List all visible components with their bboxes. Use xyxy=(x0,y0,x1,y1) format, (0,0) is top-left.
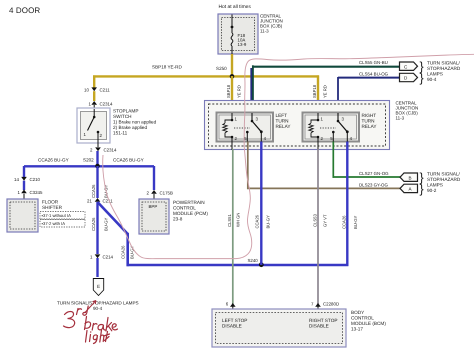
node S250 xyxy=(216,66,234,79)
body control module (BCM) xyxy=(212,309,346,347)
wire blue bus CCA26 BU-GY horizontal xyxy=(24,158,154,167)
svg-text:C211: C211 xyxy=(100,88,111,93)
svg-text:CCA26: CCA26 xyxy=(342,215,347,229)
svg-text:TURN SIGNAL/: TURN SIGNAL/ xyxy=(427,172,461,177)
svg-text:S250: S250 xyxy=(216,66,227,71)
svg-text:B: B xyxy=(409,175,412,180)
svg-text:21: 21 xyxy=(87,199,92,204)
svg-text:STOP/HAZARD: STOP/HAZARD xyxy=(427,66,461,71)
wire blue CLS54 BU-OG to connector D xyxy=(338,71,401,113)
label LEFT TURN RELAY xyxy=(276,113,292,129)
label TURN SIGNAL/STOP/HAZARD LAMPS 90-4 (top right) xyxy=(427,61,461,83)
connector C2280D pin 7 into BCM xyxy=(311,302,339,307)
wire gray CLS53 GY-VT right relay pin2 to BCM xyxy=(313,149,328,304)
wire blue parallel to left relay pin 3 xyxy=(250,68,252,113)
svg-text:MODULE (PCM): MODULE (PCM) xyxy=(173,211,208,216)
right relay pin 5 xyxy=(330,131,334,142)
svg-text:FLOOR: FLOOR xyxy=(42,200,59,205)
svg-text:RELAY: RELAY xyxy=(276,124,292,129)
wire blue C214 to connector E xyxy=(96,258,98,277)
svg-text:11-3: 11-3 xyxy=(260,29,269,34)
wire green CLS27 GN-OG right relay pin5 to connector B xyxy=(333,142,401,178)
fuse F18 10A 13-9 xyxy=(231,15,247,55)
connector C211 pin 10 xyxy=(84,87,110,92)
svg-text:SBP18: SBP18 xyxy=(312,84,317,98)
central junction box (fuse box) xyxy=(218,14,258,54)
connector C214 pin 1 xyxy=(90,254,114,259)
wire blue segment C210 to C3245 xyxy=(23,181,25,190)
svg-text:BPP: BPP xyxy=(149,204,158,209)
svg-text:90-2: 90-2 xyxy=(427,188,437,193)
svg-text:CONTROL: CONTROL xyxy=(351,316,374,321)
svg-text:CLS55 GN-BU: CLS55 GN-BU xyxy=(359,60,388,65)
left relay pin2 lead through box xyxy=(231,138,233,150)
right relay coil xyxy=(309,120,324,141)
right relay pin 1 lead xyxy=(317,113,324,122)
wire into floor shifter xyxy=(23,194,25,199)
right relay pin 3 and switch arm xyxy=(337,113,348,132)
label TURN SIGNAL/STOP/HAZARD LAMPS 90-2 xyxy=(427,172,461,194)
svg-text:RELAY: RELAY xyxy=(362,124,378,129)
label POWERTRAIN CONTROL MODULE (PCM) 23-8 xyxy=(173,200,208,222)
svg-text:23-8: 23-8 xyxy=(173,217,183,222)
svg-text:C210: C210 xyxy=(30,177,41,182)
right relay coil-arm dashed link xyxy=(320,127,336,129)
wire blue C2314 to S202 xyxy=(96,151,98,166)
connector C3245 pin 1 xyxy=(18,190,43,196)
connector A xyxy=(400,182,424,196)
svg-text:GY VT: GY VT xyxy=(323,214,328,227)
svg-text:CCA26: CCA26 xyxy=(255,214,260,228)
powertrain control module (PCM) xyxy=(139,199,169,234)
wire green CLS55 GN-BU to connector C xyxy=(252,60,401,113)
svg-text:TURN: TURN xyxy=(362,119,375,124)
svg-text:▪37-1 without IA: ▪37-1 without IA xyxy=(42,213,72,218)
svg-text:CLS54 BU-OG: CLS54 BU-OG xyxy=(359,71,389,76)
svg-text:4 DOOR: 4 DOOR xyxy=(9,6,40,15)
left turn relay U1 xyxy=(217,113,274,142)
svg-text:E: E xyxy=(97,284,100,289)
svg-text:C175B: C175B xyxy=(160,191,173,196)
left relay pin 1 lead xyxy=(231,113,238,122)
stoplamp switch xyxy=(77,108,110,147)
floor shifter module xyxy=(7,199,38,232)
svg-text:LEFT: LEFT xyxy=(276,113,288,118)
svg-text:CCA26: CCA26 xyxy=(120,245,125,259)
svg-text:11-3: 11-3 xyxy=(396,116,405,121)
svg-text:CCA26: CCA26 xyxy=(91,217,96,231)
svg-text:C2314: C2314 xyxy=(104,148,117,153)
label CENTRAL JUNCTION BOX (CJB) 11-3 (right) xyxy=(396,101,419,121)
svg-text:TURN SIGNAL/STOP/HAZARD LAMPS: TURN SIGNAL/STOP/HAZARD LAMPS xyxy=(57,301,139,306)
svg-text:C2314: C2314 xyxy=(100,102,113,107)
svg-text:C2280D: C2280D xyxy=(323,302,339,307)
svg-text:C3245: C3245 xyxy=(30,190,43,195)
wire into PCM xyxy=(153,194,155,199)
svg-text:13-17: 13-17 xyxy=(351,327,363,332)
left relay pin 5 xyxy=(244,131,248,142)
svg-text:TURN: TURN xyxy=(276,119,289,124)
svg-text:}: } xyxy=(420,71,424,85)
label TURN SIGNAL/STOP/HAZARD LAMPS 90-4 (bottom) xyxy=(57,301,139,312)
connector C210 pin 14 xyxy=(14,177,41,182)
wire blue main vertical S202 to C211 xyxy=(91,166,109,198)
connector C175B pin 2 xyxy=(147,190,173,196)
connector E (3rd brake light feed) xyxy=(93,279,103,296)
svg-text:▪37-2 with IA: ▪37-2 with IA xyxy=(42,221,66,226)
svg-text:DLS23 GY-OG: DLS23 GY-OG xyxy=(359,182,388,187)
right turn relay U2 xyxy=(303,113,360,142)
svg-text:LAMPS: LAMPS xyxy=(427,72,443,77)
node S202 xyxy=(83,158,100,169)
svg-text:CONTROL: CONTROL xyxy=(173,206,196,211)
svg-text:CCA26 BU-GY: CCA26 BU-GY xyxy=(113,158,144,163)
svg-text:S202: S202 xyxy=(83,158,94,163)
annotation pink trace xyxy=(103,54,474,258)
svg-text:S240: S240 xyxy=(248,258,259,263)
svg-text:14: 14 xyxy=(14,177,19,182)
connector C2314 pin 1 xyxy=(89,101,113,107)
wire blue left branch down xyxy=(23,166,25,177)
option row 37-2 with IA xyxy=(40,220,85,228)
wire into stoplamp switch xyxy=(93,105,95,109)
wire blue right branch to PCM xyxy=(153,166,155,190)
wire leads into BCM xyxy=(232,307,234,310)
wire blue left relay pin4 to S240 xyxy=(260,142,262,266)
connector pin 6 into BCM xyxy=(226,302,236,307)
connector C xyxy=(400,60,424,74)
wire yellow down-left to stoplamp switch xyxy=(93,75,95,89)
svg-text:BU-GY: BU-GY xyxy=(104,218,109,231)
svg-text:}: } xyxy=(420,182,424,196)
wire blue lower bus horizontal xyxy=(127,264,349,267)
annotation handwriting 3rd xyxy=(64,306,89,328)
svg-text:BODY: BODY xyxy=(351,310,365,315)
annotation handwriting brake xyxy=(85,317,118,332)
svg-text:CLS51: CLS51 xyxy=(227,214,232,227)
svg-text:C214: C214 xyxy=(103,255,114,260)
svg-text:C211: C211 xyxy=(103,199,114,204)
svg-text:SHIFTER: SHIFTER xyxy=(42,205,63,210)
connector D xyxy=(400,71,424,85)
connector B xyxy=(400,171,424,185)
svg-text:BU-GY: BU-GY xyxy=(353,216,358,229)
label STOPLAMP SWITCH xyxy=(113,109,157,136)
svg-text:BU-GY: BU-GY xyxy=(266,215,271,228)
right relay pin 4 xyxy=(346,130,353,141)
wire yellow segment C211 to C2314 xyxy=(93,91,95,101)
svg-text:151-11: 151-11 xyxy=(113,131,128,136)
connector C211 pin 21 xyxy=(87,198,113,204)
svg-text:CLS53: CLS53 xyxy=(313,214,318,227)
svg-text:YE RD: YE RD xyxy=(323,85,328,98)
annotation red arrow xyxy=(85,301,97,314)
wire green CLS51 WH-GN left relay pin2 to BCM xyxy=(227,149,241,304)
left relay coil-arm dashed link xyxy=(234,127,250,129)
svg-text:MODULE (BCM): MODULE (BCM) xyxy=(351,321,386,326)
svg-text:1) Brake non applied: 1) Brake non applied xyxy=(113,120,157,125)
svg-text:SBP18 YE-RD: SBP18 YE-RD xyxy=(152,65,182,70)
label FLOOR SHIFTER xyxy=(42,200,63,211)
svg-text:YE RD: YE RD xyxy=(237,85,242,98)
option row 37-1 without IA xyxy=(40,212,85,220)
label BODY CONTROL MODULE (BCM) 13-17 xyxy=(351,310,386,332)
svg-text:CCA26 BU-GY: CCA26 BU-GY xyxy=(38,158,69,163)
svg-text:SWITCH: SWITCH xyxy=(113,114,132,119)
wire yellow vertical to right relay pin 1 xyxy=(312,75,328,113)
svg-text:STOP/HAZARD: STOP/HAZARD xyxy=(427,177,461,182)
svg-text:LAMPS: LAMPS xyxy=(427,183,443,188)
left relay coil xyxy=(223,120,238,141)
svg-text:SBP18: SBP18 xyxy=(226,84,231,98)
svg-text:WH GN: WH GN xyxy=(236,213,241,227)
wire brown DLS23 GY-OG left relay pin5 to connector A xyxy=(247,142,401,190)
svg-text:POWERTRAIN: POWERTRAIN xyxy=(173,200,205,205)
svg-text:CLS27 GN-OG: CLS27 GN-OG xyxy=(359,171,389,176)
node S240 xyxy=(248,258,264,267)
wire blue vertical to lower bus xyxy=(120,233,134,266)
connector C2314 pin 2 xyxy=(90,147,117,152)
annotation handwriting light xyxy=(86,330,110,344)
svg-text:STOPLAMP: STOPLAMP xyxy=(113,109,138,114)
right relay pin2 lead through box xyxy=(317,138,319,150)
svg-text:RIGHT: RIGHT xyxy=(362,113,377,118)
svg-text:13-9: 13-9 xyxy=(238,42,247,47)
wire blue diagonal C211 to bus xyxy=(98,202,128,234)
left relay pin 4 xyxy=(260,130,267,141)
svg-text:Hot at all times: Hot at all times xyxy=(219,4,252,10)
wire blue C211 to C214 xyxy=(91,202,109,254)
wire yellow vertical S250 to left relay pin 1 xyxy=(226,76,242,113)
svg-text:10: 10 xyxy=(84,88,89,93)
svg-text:CCA26: CCA26 xyxy=(91,184,96,198)
svg-text:RIGHT STOP: RIGHT STOP xyxy=(309,318,337,323)
svg-text:TURN SIGNAL/: TURN SIGNAL/ xyxy=(427,61,461,66)
left relay pin 3 and switch arm xyxy=(251,113,262,132)
label CENTRAL JUNCTION BOX (CJB) 11-3 (top) xyxy=(260,14,283,34)
svg-text:90-4: 90-4 xyxy=(93,306,103,311)
svg-text:DISABLE: DISABLE xyxy=(222,324,242,329)
svg-text:DISABLE: DISABLE xyxy=(309,324,329,329)
svg-text:90-4: 90-4 xyxy=(427,77,437,82)
svg-text:2) Brake applied: 2) Brake applied xyxy=(113,125,148,130)
wire blue right relay pin4 to lower bus xyxy=(342,142,359,267)
wire yellow horizontal SBP18 YE-RD xyxy=(93,65,319,77)
label RIGHT TURN RELAY xyxy=(362,113,378,129)
svg-text:LEFT STOP: LEFT STOP xyxy=(222,318,247,323)
central junction box (CJB) with relays xyxy=(205,101,390,150)
wire yellow SBP18 YE-RD from fuse to S250 xyxy=(231,54,233,77)
